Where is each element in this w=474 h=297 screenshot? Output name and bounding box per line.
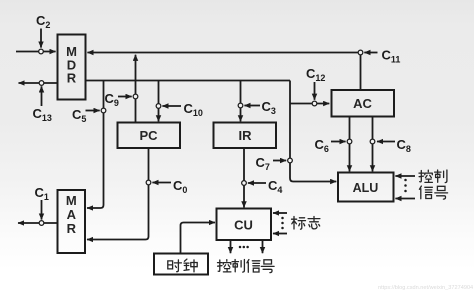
svg-text:nttps://blog.csdn.net/weixin_3: nttps://blog.csdn.net/weixin_37274904	[378, 285, 473, 291]
svg-text:C7: C7	[256, 155, 270, 172]
svg-text:PC: PC	[139, 128, 158, 143]
svg-text:C1: C1	[35, 185, 49, 202]
svg-text:C12: C12	[306, 66, 325, 83]
svg-text:CU: CU	[234, 218, 253, 233]
svg-text:C6: C6	[315, 137, 329, 154]
svg-text:C8: C8	[397, 137, 411, 154]
svg-text:M: M	[66, 193, 77, 208]
svg-text:C13: C13	[33, 106, 52, 123]
svg-text:C11: C11	[382, 48, 401, 65]
svg-text:C0: C0	[173, 178, 187, 195]
svg-text:C9: C9	[105, 91, 119, 108]
svg-text:ALU: ALU	[353, 181, 379, 195]
svg-text:C4: C4	[268, 178, 282, 195]
svg-text:AC: AC	[353, 96, 372, 111]
svg-text:R: R	[67, 71, 77, 86]
svg-text:IR: IR	[239, 128, 253, 143]
svg-text:C5: C5	[72, 107, 86, 124]
svg-text:C10: C10	[184, 101, 203, 118]
svg-text:C2: C2	[36, 13, 50, 30]
svg-text:C3: C3	[262, 99, 276, 116]
svg-text:A: A	[67, 207, 77, 222]
svg-text:R: R	[67, 221, 77, 236]
